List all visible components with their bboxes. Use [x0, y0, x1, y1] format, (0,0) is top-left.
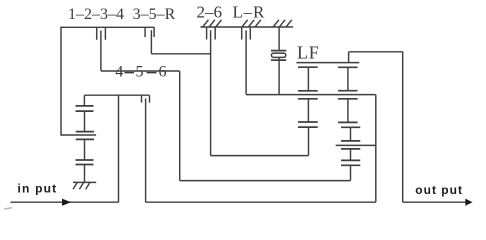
housing hatch group 3 [273, 20, 292, 27]
one-way clutch stem lower [278, 57, 280, 94]
output arrowhead [465, 199, 472, 206]
brake L-R plunger [245, 30, 247, 94]
svg-text:5: 5 [136, 64, 144, 81]
input arrowhead [62, 199, 71, 206]
ground left hatches [73, 182, 90, 189]
wire 3-5-R output horizontal [151, 53, 210, 55]
gear right stem r5-r6 [350, 127, 352, 141]
svg-text:3–5–R: 3–5–R [133, 6, 176, 23]
one-way clutch top bar [271, 50, 286, 52]
clutch 3-5-R fork ticks [145, 27, 154, 37]
brake 2-6 fork ticks [207, 27, 216, 40]
gear bar right s2 [341, 148, 360, 150]
wire left gear stem top [83, 95, 85, 106]
gear bar left b3 [76, 131, 94, 133]
gear bar right r3 [338, 98, 358, 100]
wire output line [403, 201, 466, 203]
clutch mid fork ticks [142, 95, 150, 102]
gear bar right r5 [341, 126, 360, 128]
svg-text:in put: in put [18, 182, 58, 196]
gear mid stem m3-m4 [307, 99, 309, 122]
gear right stem s2-s3 [350, 149, 352, 161]
wire output vertical x402.8 [402, 52, 404, 202]
clutch 1-2-3-4 fork ticks [97, 27, 106, 39]
gear bar left b4 [76, 138, 94, 140]
wire mid-left horizontal y95.2 [84, 94, 149, 96]
wire LF shaft line [296, 62, 359, 64]
gear bar left b2 [76, 110, 94, 112]
svg-text:out put: out put [415, 183, 463, 197]
wire input line [11, 201, 119, 203]
gear bar left b6 [76, 164, 94, 166]
gear left stem b2-b3 [84, 111, 86, 132]
label L-R [232, 2, 265, 21]
wire input riser x118.5 [118, 95, 120, 202]
wire top-right horizontal y52.5 [349, 51, 403, 53]
one-way clutch stem upper [278, 27, 280, 51]
gear bar left b5 [76, 159, 94, 161]
gear left stem b4-b5 [84, 139, 86, 160]
label out put [415, 183, 463, 197]
wire long horizontal y94.6 [246, 94, 376, 96]
gear bar mid m2 [298, 90, 318, 92]
gear right stem r3-r4 [347, 99, 349, 123]
clutch 3-5-R plunger [150, 30, 152, 54]
gear bar left b1 [76, 105, 94, 107]
wire riser x348.7 [348, 52, 350, 63]
gear bar mid m3 [298, 98, 318, 100]
gear right stem r1-r2 [347, 67, 349, 90]
label 1-2-3-4 [68, 6, 124, 23]
gear bar mid m5 [298, 126, 318, 128]
svg-text:L–R: L–R [232, 2, 265, 21]
wire left ground stem [84, 165, 86, 183]
gear bar right s3 [341, 159, 360, 161]
wire stub shaft y145.4 [336, 144, 376, 146]
wire plunger drop x145.6 [145, 98, 147, 202]
label 2-6 [197, 2, 223, 21]
gear bar mid m4 [298, 121, 318, 123]
wire vertical x180 [179, 71, 181, 181]
svg-text:4: 4 [115, 64, 123, 81]
gear bar right r1 [338, 66, 358, 68]
gear bar right r2 [338, 90, 358, 92]
brake L-R fork ticks [242, 27, 251, 40]
gear bar right s4 [341, 164, 360, 166]
wire input shaft top-left horizontal [61, 26, 154, 28]
label 4-5-6 [115, 64, 166, 81]
svg-text:1–2–3–4: 1–2–3–4 [68, 6, 124, 23]
wire left vertical [60, 27, 62, 135]
housing hatch group 2 [242, 20, 261, 27]
label in put [18, 182, 58, 196]
label LF [297, 43, 320, 63]
wire riser x308 to gear [308, 127, 310, 156]
clutch 1-2-3-4 plunger [100, 31, 102, 71]
gear bar right r4 [338, 121, 358, 123]
wire 2-6 branch horizontal y156 [211, 155, 309, 157]
faint artifact bottom-left [4, 208, 12, 210]
label 3-5-R [133, 6, 176, 23]
svg-text:6: 6 [159, 64, 167, 81]
wire horizontal y181 [180, 180, 351, 182]
housing hatch group 1 [203, 20, 222, 27]
wire 4-5-6 horizontal [101, 70, 180, 72]
gear mid stem m1-m2 [307, 67, 309, 91]
svg-text:LF: LF [297, 43, 320, 63]
wire right vertical x375.8 [375, 95, 377, 203]
ground left line [73, 181, 96, 183]
wire riser x351 [350, 165, 352, 180]
gear bar mid m1 [298, 66, 318, 68]
svg-text:2–6: 2–6 [197, 2, 223, 21]
one-way clutch capsule [271, 53, 285, 57]
wire left countershaft stub [60, 134, 96, 136]
one-way clutch bar [271, 59, 286, 61]
wire bottom horizontal y202 [146, 201, 376, 203]
housing line [200, 26, 293, 28]
brake 2-6 plunger [210, 30, 212, 155]
gear bar right r6 [341, 140, 360, 142]
